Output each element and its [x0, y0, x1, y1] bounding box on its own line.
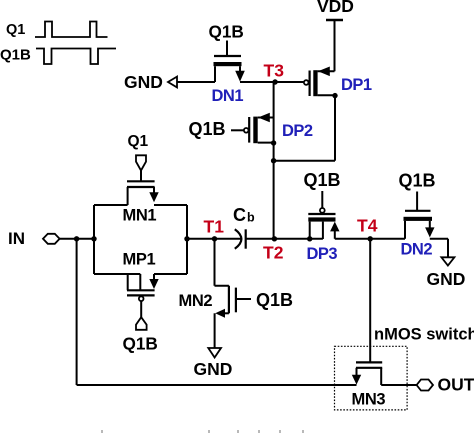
label VDD	[317, 0, 354, 16]
svg-text:DN2: DN2	[401, 241, 433, 259]
wire IN to TG	[60, 238, 95, 240]
label DN2	[401, 241, 433, 259]
node TG left	[91, 236, 96, 241]
svg-text:Q1B: Q1B	[123, 334, 158, 354]
label MP1	[123, 250, 156, 268]
ground (down arrow, right)	[441, 257, 454, 265]
svg-text:GND: GND	[124, 72, 163, 92]
svg-text:MP1: MP1	[123, 250, 156, 268]
svg-text:DP3: DP3	[307, 245, 338, 263]
clock label Q1	[6, 22, 25, 38]
label Q1B (gate of DN2)	[399, 170, 436, 190]
label Q1 (gate of MN1)	[128, 133, 149, 150]
caption remnants	[101, 430, 304, 433]
label MN1	[123, 206, 157, 224]
svg-text:Q1B: Q1B	[399, 170, 436, 190]
wire T1	[187, 238, 241, 240]
node junction DP1/DP2	[271, 158, 276, 163]
wire DN2 to GND	[430, 239, 448, 257]
wire T3	[240, 81, 304, 83]
node T2	[272, 236, 277, 241]
svg-text:GND: GND	[194, 359, 233, 379]
label MN3	[352, 391, 386, 409]
svg-text:Q1B: Q1B	[0, 47, 31, 64]
label GND (right)	[427, 269, 466, 289]
transistor MN2	[215, 239, 252, 348]
wire MP1 gate to Q1B port	[140, 301, 142, 317]
svg-text:T4: T4	[357, 215, 378, 235]
capacitor C_b	[235, 229, 246, 249]
wire T4	[335, 238, 405, 240]
svg-text:DN1: DN1	[212, 87, 244, 105]
node T3	[272, 79, 277, 84]
svg-text:Q1: Q1	[128, 133, 149, 150]
svg-text:MN3: MN3	[352, 391, 386, 409]
transistor DP2	[244, 113, 274, 144]
clock waveform Q1B	[36, 49, 116, 65]
svg-text:T3: T3	[264, 60, 285, 80]
svg-text:DP1: DP1	[341, 76, 372, 94]
svg-text:GND: GND	[427, 269, 466, 289]
transistor MN1	[127, 181, 159, 205]
label T1	[204, 216, 225, 236]
transmission gate frame	[94, 205, 187, 274]
wire T3 to DP2 source	[273, 82, 275, 118]
wire DP1 drain down	[334, 95, 336, 160]
node TG right	[184, 236, 189, 241]
wire junction to DP1	[274, 160, 335, 162]
wire VDD to DP1	[334, 20, 336, 71]
node T4	[368, 236, 373, 241]
port Q1B	[136, 317, 147, 330]
transistor MP1	[127, 274, 159, 301]
label DP1	[341, 76, 372, 94]
svg-text:b: b	[247, 211, 255, 225]
label Q1B (gate of DP3)	[304, 170, 341, 190]
svg-text:DP2: DP2	[282, 122, 313, 140]
label nMOS switch	[374, 326, 474, 344]
node T1	[212, 236, 217, 241]
svg-text:OUT: OUT	[438, 374, 474, 394]
transistor MN3	[352, 362, 382, 385]
label T4	[357, 215, 378, 235]
label DP2	[282, 122, 313, 140]
label DN1	[212, 87, 244, 105]
wire MN3 to OUT	[381, 384, 416, 386]
label DP3	[307, 245, 338, 263]
label Q1B (gate of DP2)	[189, 119, 226, 139]
op DP1	[304, 67, 335, 97]
wire T2	[246, 238, 323, 240]
svg-text:Q1: Q1	[6, 22, 25, 38]
svg-text:Q1B: Q1B	[189, 119, 226, 139]
wire DP2 drain to T2	[273, 118, 275, 240]
svg-text:C: C	[233, 205, 246, 225]
label GND (top left)	[124, 72, 163, 92]
svg-text:T2: T2	[263, 243, 284, 263]
clock label Q1B	[0, 47, 31, 64]
wire bottom to MN3	[77, 384, 357, 386]
clock waveform Q1	[35, 22, 108, 38]
svg-text:MN2: MN2	[179, 292, 213, 310]
ground (left arrow)	[168, 77, 177, 88]
node DP2 drain	[271, 140, 276, 145]
svg-text:Q1B: Q1B	[256, 290, 293, 310]
label T3	[264, 60, 285, 80]
svg-text:Q1B: Q1B	[209, 21, 244, 41]
svg-text:VDD: VDD	[317, 0, 354, 16]
label Q1B (below MP1)	[123, 334, 158, 354]
dashed box nMOS switch	[335, 346, 408, 410]
svg-text:Q1B: Q1B	[304, 170, 341, 190]
wire IN down	[76, 239, 78, 385]
svg-text:IN: IN	[8, 229, 25, 248]
node IN branch	[74, 236, 79, 241]
wire DN1 source to GND	[177, 81, 215, 83]
label GND (bottom middle)	[194, 359, 233, 379]
node DP3 left	[307, 236, 312, 241]
ground (down arrow, MN2)	[208, 348, 221, 358]
transistor DN1	[214, 41, 245, 83]
label Q1B (gate of MN2)	[256, 290, 293, 310]
transistor DN2	[404, 192, 435, 239]
label Q1B (gate of DN1)	[209, 21, 244, 41]
port OUT	[417, 380, 433, 391]
label Cb	[233, 205, 255, 225]
wire T4 to MN3 gate	[369, 239, 371, 363]
label T2	[263, 243, 284, 263]
svg-text:T1: T1	[204, 216, 225, 236]
port Q1	[136, 155, 146, 170]
label OUT	[438, 374, 474, 394]
svg-text:MN1: MN1	[123, 206, 157, 224]
svg-text:nMOS switch: nMOS switch	[374, 326, 474, 344]
label IN	[8, 229, 25, 248]
wire Q1 port to MN1 gate	[140, 171, 142, 182]
wire Q1B to DP2 gate	[231, 129, 244, 131]
port IN	[43, 234, 60, 244]
transistor DP3	[308, 191, 339, 239]
label MN2	[179, 292, 213, 310]
power VDD bar	[326, 19, 343, 21]
node DP1 drain	[332, 93, 337, 98]
